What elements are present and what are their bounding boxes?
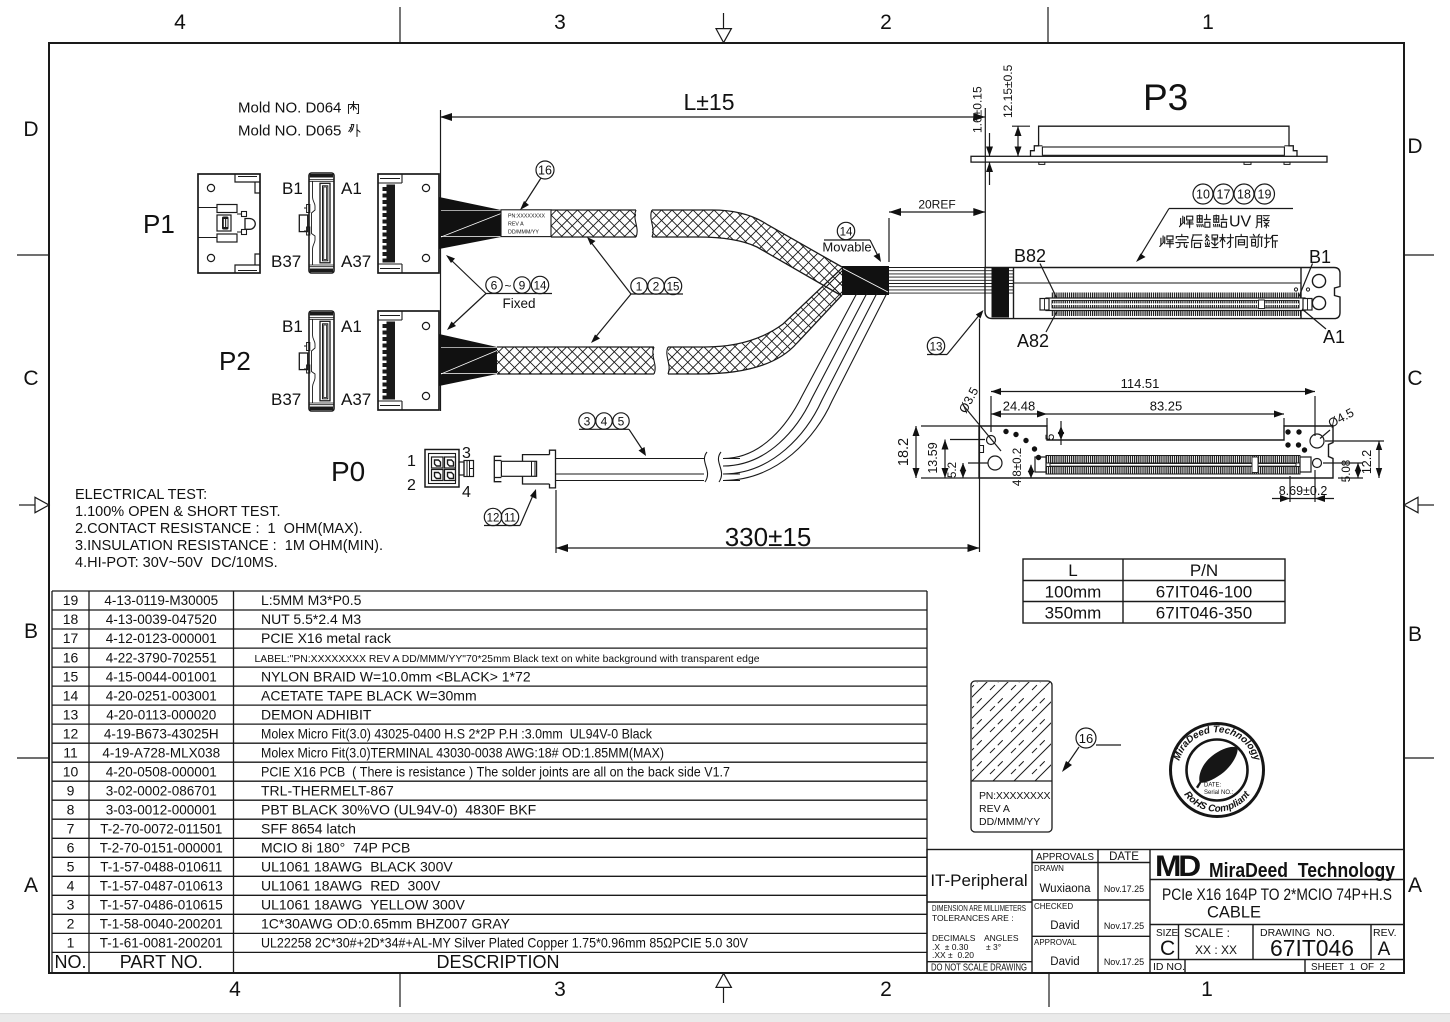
svg-text:Molex Micro Fit(3.0) 43025-040: Molex Micro Fit(3.0) 43025-0400 H.S 2*2P…	[261, 725, 653, 741]
svg-text:P3: P3	[1143, 77, 1188, 118]
svg-text:14: 14	[534, 281, 547, 293]
svg-text:6: 6	[67, 840, 75, 856]
svg-text:MiraDeed Technology: MiraDeed Technology	[1209, 860, 1396, 882]
svg-text:1: 1	[636, 280, 643, 294]
svg-text:14: 14	[63, 687, 79, 703]
dim 83.25	[1047, 399, 1284, 427]
P3 pin leaders	[1040, 264, 1326, 333]
svg-text:B: B	[24, 620, 38, 643]
svg-text:UL1061 18AWG YELLOW 300V: UL1061 18AWG YELLOW 300V	[261, 897, 466, 913]
svg-text:B37: B37	[271, 252, 301, 271]
svg-text:T-2-70-0072-011501: T-2-70-0072-011501	[100, 821, 222, 836]
svg-text:4-20-0113-000020: 4-20-0113-000020	[106, 707, 216, 722]
svg-text:XX : XX: XX : XX	[1195, 943, 1237, 957]
svg-text:18.2: 18.2	[896, 438, 912, 466]
svg-text:19: 19	[63, 592, 79, 608]
lower braid segment A	[497, 347, 655, 374]
svg-text:Movable: Movable	[822, 240, 871, 255]
svg-text:16: 16	[1079, 731, 1093, 746]
svg-text:B82: B82	[1014, 246, 1046, 266]
svg-text:A37: A37	[341, 390, 371, 409]
callout 14 Movable	[822, 222, 881, 262]
svg-text:5: 5	[618, 415, 625, 429]
svg-text:2: 2	[880, 11, 892, 34]
zone tick top-left	[399, 7, 401, 43]
svg-text:DD/MMM/YY: DD/MMM/YY	[979, 816, 1040, 828]
svg-text:4: 4	[601, 415, 608, 429]
dim 12.2	[1325, 441, 1384, 478]
callout 10 17 18 19	[1136, 184, 1293, 262]
BOM row 9	[67, 782, 394, 798]
label 16 detail box	[971, 681, 1052, 832]
svg-text:A82: A82	[1017, 331, 1049, 351]
svg-text:83.25: 83.25	[1150, 399, 1183, 414]
svg-text:5: 5	[1043, 433, 1057, 440]
BOM row 1	[67, 935, 749, 951]
svg-text:13: 13	[63, 706, 79, 722]
svg-text:REV A: REV A	[979, 803, 1010, 815]
svg-text:13.59: 13.59	[926, 442, 940, 473]
svg-text:IT-Peripheral: IT-Peripheral	[930, 871, 1027, 890]
svg-text:PCIe X16 164P TO 2*MCIO 74P+H.: PCIe X16 164P TO 2*MCIO 74P+H.S	[1162, 886, 1392, 904]
svg-text:Serial NO.:: Serial NO.:	[1204, 790, 1234, 796]
callout 12 11	[484, 489, 537, 526]
svg-text:4.8±0.2: 4.8±0.2	[1012, 448, 1024, 486]
svg-text:9: 9	[519, 279, 526, 293]
title block grid	[927, 850, 1404, 974]
svg-text:10: 10	[63, 763, 79, 779]
svg-text:4.HI-POT: 30V~50V DC/10MS.: 4.HI-POT: 30V~50V DC/10MS.	[75, 555, 278, 571]
electrical test notes	[75, 487, 383, 571]
svg-text:1: 1	[1202, 11, 1214, 34]
zone tick bottom-right	[1048, 973, 1050, 1007]
P2 boot (black trapezoid)	[439, 334, 497, 386]
L/PN table	[1023, 559, 1285, 623]
P0 pin numbers	[407, 445, 471, 501]
BOM row 12	[63, 725, 653, 741]
svg-text:DESCRIPTION: DESCRIPTION	[436, 952, 559, 972]
BOM row 7	[67, 820, 356, 836]
svg-text:12: 12	[63, 725, 79, 741]
svg-text:Wuxiaona: Wuxiaona	[1040, 883, 1092, 895]
svg-text:REV A: REV A	[508, 222, 524, 228]
RoHS stamp	[1171, 724, 1264, 817]
svg-text:P0: P0	[331, 456, 365, 487]
svg-text:2: 2	[67, 916, 75, 932]
svg-text:12.2: 12.2	[1360, 450, 1374, 474]
svg-text:11: 11	[63, 744, 78, 760]
svg-text:A1: A1	[341, 179, 362, 198]
svg-text:4-19-A728-MLX038: 4-19-A728-MLX038	[102, 745, 220, 760]
svg-text:T-1-58-0040-200201: T-1-58-0040-200201	[100, 917, 223, 932]
center marker right	[1404, 497, 1434, 512]
svg-text:TRL-THERMELT-867: TRL-THERMELT-867	[261, 782, 394, 798]
svg-text:4: 4	[462, 484, 471, 501]
svg-text:L: L	[1068, 561, 1077, 580]
svg-text:B1: B1	[282, 317, 303, 336]
svg-text:5.2: 5.2	[947, 462, 959, 478]
svg-text:PCIE X16 metal rack: PCIE X16 metal rack	[261, 630, 392, 646]
svg-text:114.51: 114.51	[1121, 376, 1160, 391]
svg-text:CHECKED: CHECKED	[1034, 902, 1073, 911]
svg-text:3-02-0002-086701: 3-02-0002-086701	[106, 783, 217, 798]
svg-text:C: C	[1407, 367, 1422, 390]
svg-text:1.100% OPEN & SHORT TEST.: 1.100% OPEN & SHORT TEST.	[75, 504, 281, 520]
P1 pin labels	[271, 179, 371, 271]
svg-text:100mm: 100mm	[1045, 583, 1102, 602]
zone tick bottom-left	[399, 973, 401, 1007]
bottom gray strip	[0, 1014, 1450, 1022]
BOM row 4	[67, 878, 441, 894]
svg-text:P1: P1	[143, 209, 175, 239]
svg-text:A1: A1	[1323, 327, 1345, 347]
svg-text:A: A	[24, 874, 38, 897]
svg-text:12: 12	[487, 513, 500, 525]
svg-text:UL1061 18AWG RED 300V: UL1061 18AWG RED 300V	[261, 878, 441, 894]
dim 8.69±0.2	[1272, 470, 1334, 502]
callout 1 2 15	[587, 237, 683, 343]
svg-text:ACETATE TAPE BLACK W=30mm: ACETATE TAPE BLACK W=30mm	[261, 687, 477, 703]
svg-text:18: 18	[1237, 188, 1251, 202]
svg-text:4-20-0508-000001: 4-20-0508-000001	[106, 764, 217, 779]
P1 boot (black trapezoid)	[439, 197, 501, 249]
svg-text:T-1-61-0081-200201: T-1-61-0081-200201	[100, 936, 223, 951]
svg-text:PN:XXXXXXXX: PN:XXXXXXXX	[508, 214, 546, 220]
dim Ø3.5	[956, 385, 1001, 451]
svg-text:3: 3	[462, 445, 471, 462]
svg-text:L±15: L±15	[684, 89, 735, 115]
dim 18.2	[896, 426, 979, 478]
callout 13	[927, 310, 984, 355]
svg-text:C: C	[23, 367, 38, 390]
svg-text:14: 14	[840, 227, 853, 239]
svg-text:D: D	[23, 118, 38, 141]
svg-text:SHEET 1 OF 2: SHEET 1 OF 2	[1311, 961, 1385, 973]
wai glyph	[349, 125, 360, 137]
svg-text:4: 4	[67, 878, 75, 894]
svg-text:~: ~	[504, 279, 511, 293]
svg-text:NYLON BRAID W=10.0mm <BLACK> 1: NYLON BRAID W=10.0mm <BLACK> 1*72	[261, 668, 531, 684]
zone tick left-upper	[17, 254, 49, 256]
P2 pin labels	[271, 317, 371, 409]
UV glue note line1 (Chinese glyph strokes)	[1180, 214, 1270, 231]
BOM row 5	[67, 859, 454, 875]
BOM row 2	[67, 916, 511, 932]
P1 MCIO front view	[299, 173, 334, 273]
dim 5 step	[1043, 421, 1064, 445]
BOM row 18	[63, 611, 362, 627]
P3 bottom comb	[1035, 456, 1311, 475]
svg-text:Nov.17.25: Nov.17.25	[1104, 921, 1144, 931]
P0 power wires from bundle	[723, 293, 887, 481]
svg-text:4-15-0044-001001: 4-15-0044-001001	[106, 669, 217, 684]
P3 wire tape (13)	[992, 268, 1010, 318]
BOM row 11	[63, 744, 664, 760]
dim 4.8±0.2	[1012, 448, 1034, 486]
svg-text:4-13-0039-047520: 4-13-0039-047520	[106, 612, 217, 627]
svg-text:2: 2	[880, 978, 892, 1001]
svg-text:6: 6	[491, 279, 498, 293]
dim 114.51	[991, 376, 1315, 436]
svg-text:67IT046-100: 67IT046-100	[1156, 583, 1252, 602]
svg-text:3: 3	[67, 897, 75, 913]
svg-text:D: D	[1407, 135, 1422, 158]
svg-text:A: A	[1408, 874, 1422, 897]
svg-text:Mold NO. D065: Mold NO. D065	[238, 123, 341, 140]
svg-text:B1: B1	[282, 179, 303, 198]
svg-text:DEMON ADHIBIT: DEMON ADHIBIT	[261, 706, 372, 722]
svg-text:15: 15	[667, 282, 680, 294]
svg-text:Fixed: Fixed	[502, 296, 535, 311]
svg-text:1: 1	[67, 935, 75, 951]
BOM row 17	[63, 630, 392, 646]
svg-text:Nov.17.25: Nov.17.25	[1104, 884, 1144, 894]
svg-text:13: 13	[930, 342, 943, 354]
svg-text:16: 16	[538, 164, 552, 178]
callout 3 4 5	[579, 413, 646, 456]
svg-text:18: 18	[63, 611, 79, 627]
svg-text:1: 1	[1201, 978, 1213, 1001]
svg-text:UL1061 18AWG BLACK 300V: UL1061 18AWG BLACK 300V	[261, 859, 453, 875]
lower braid segment B with bend to bundle	[667, 268, 842, 374]
svg-text:4: 4	[174, 11, 186, 34]
svg-text:12.15±0.5: 12.15±0.5	[1001, 64, 1015, 118]
svg-text:9: 9	[67, 782, 75, 798]
MD logo	[1155, 850, 1396, 883]
center marker bottom	[716, 973, 731, 1003]
svg-text:3-03-0012-000001: 3-03-0012-000001	[106, 802, 217, 817]
svg-text:B37: B37	[271, 390, 301, 409]
dim 1.6±0.15	[971, 86, 994, 185]
P3 front view body	[985, 268, 1340, 319]
svg-text:17: 17	[63, 630, 79, 646]
svg-text:David: David	[1050, 920, 1079, 932]
svg-text:L:5MM M3*P0.5: L:5MM M3*P0.5	[261, 592, 362, 608]
svg-text:Nov.17.25: Nov.17.25	[1104, 957, 1144, 967]
svg-text:5: 5	[67, 859, 75, 875]
wire label sticker on P1 cable	[501, 210, 551, 237]
svg-text:UV: UV	[1229, 214, 1252, 231]
svg-text:B: B	[1408, 623, 1422, 646]
svg-text:± 3°: ± 3°	[986, 942, 1001, 952]
svg-text:4-20-0251-003001: 4-20-0251-003001	[106, 688, 217, 703]
UV glue note line2	[1160, 234, 1278, 247]
BOM row 6	[67, 840, 411, 856]
upper braid segment A	[551, 210, 637, 237]
svg-text:3.INSULATION RESISTANCE : 1M: 3.INSULATION RESISTANCE : 1M OHM(MIN).	[75, 538, 383, 554]
dimension 330±15	[556, 490, 980, 553]
center marker left	[19, 497, 49, 512]
svg-text:17: 17	[1217, 188, 1231, 202]
P3 bottom view body	[979, 426, 1333, 478]
svg-text:UL22258 2C*30#+2D*34#+AL-MY Si: UL22258 2C*30#+2D*34#+AL-MY Silver Plate…	[261, 935, 749, 951]
svg-text:67IT046-350: 67IT046-350	[1156, 604, 1252, 623]
svg-text:4-19-B673-43025H: 4-19-B673-43025H	[104, 726, 219, 741]
svg-text:4-12-0123-000001: 4-12-0123-000001	[106, 631, 217, 646]
svg-text:1: 1	[407, 453, 416, 470]
center marker top	[716, 13, 731, 43]
svg-text:24.48: 24.48	[1003, 399, 1036, 414]
svg-text:SFF 8654 latch: SFF 8654 latch	[261, 820, 356, 836]
svg-text:Mold NO. D064: Mold NO. D064	[238, 100, 341, 117]
P2 rear view	[378, 311, 439, 410]
svg-text:SCALE :: SCALE :	[1184, 926, 1230, 940]
zone tick right-lower	[1404, 757, 1434, 759]
P3 pin labels	[1014, 246, 1345, 351]
dim 5.2	[947, 462, 988, 478]
P3 front comb	[1040, 293, 1312, 317]
dimension 20REF	[889, 198, 985, 263]
upper braid segment B with bend to bundle	[651, 210, 842, 296]
svg-text:8: 8	[67, 801, 75, 817]
svg-text:MD: MD	[1155, 850, 1200, 883]
zone tick top-right	[1047, 7, 1049, 43]
nei glyph	[349, 102, 359, 114]
P1 housing plan view	[198, 174, 260, 273]
BOM row 19	[63, 592, 362, 608]
svg-text:1.6±0.15: 1.6±0.15	[971, 86, 985, 133]
dim Ø4.5	[1320, 406, 1356, 439]
svg-text:7: 7	[67, 820, 75, 836]
svg-text:3: 3	[584, 415, 591, 429]
svg-text:CABLE: CABLE	[1207, 904, 1261, 922]
P2 MCIO front view	[299, 311, 334, 411]
svg-text:10: 10	[1196, 188, 1210, 202]
svg-text:1C*30AWG OD:0.65mm BHZ007 GRAY: 1C*30AWG OD:0.65mm BHZ007 GRAY	[261, 916, 511, 932]
svg-text:T-1-57-0486-010615: T-1-57-0486-010615	[100, 898, 223, 913]
svg-text:ID NO.: ID NO.	[1153, 961, 1185, 973]
BOM row 14	[63, 687, 477, 703]
svg-text:11: 11	[504, 513, 516, 525]
svg-text:.XX ± 0.20: .XX ± 0.20	[932, 950, 974, 960]
P0 wire straight section	[556, 452, 741, 482]
BOM row 13	[63, 706, 372, 722]
tolerance notes	[932, 903, 1026, 960]
BOM row 8	[67, 801, 537, 817]
svg-text:TOLERANCES ARE :: TOLERANCES ARE :	[932, 913, 1014, 923]
svg-text:PN:XXXXXXXX: PN:XXXXXXXX	[979, 790, 1051, 802]
approval row	[1034, 938, 1144, 968]
svg-text:20REF: 20REF	[918, 198, 955, 212]
svg-text:DATE: DATE	[1109, 851, 1139, 863]
P1 rear view	[378, 174, 439, 273]
P0 plug side view	[494, 450, 555, 488]
BOM header row	[54, 952, 559, 972]
svg-text:David: David	[1050, 956, 1079, 968]
svg-text:DATE:: DATE:	[1204, 783, 1222, 789]
BOM row 3	[67, 897, 466, 913]
svg-text:APPROVAL: APPROVAL	[1034, 938, 1077, 947]
svg-text:8.69±0.2: 8.69±0.2	[1279, 484, 1328, 498]
dim 24.48	[991, 399, 1047, 427]
svg-text:T-1-57-0487-010613: T-1-57-0487-010613	[100, 879, 223, 894]
svg-text:4: 4	[229, 978, 241, 1001]
svg-text:C: C	[1160, 937, 1175, 960]
svg-text:DD/MMM/YY: DD/MMM/YY	[508, 230, 539, 236]
BOM row 10	[63, 763, 730, 779]
callout 6~9 14 Fixed	[446, 255, 552, 330]
ribbon wires to P3	[889, 268, 1013, 294]
dim 13.59	[926, 440, 985, 479]
BOM table grid	[52, 591, 927, 973]
svg-text:DO NOT SCALE DRAWING: DO NOT SCALE DRAWING	[931, 962, 1027, 974]
checked row	[1034, 902, 1144, 932]
svg-text:P2: P2	[219, 346, 251, 376]
dim 5.08	[1323, 460, 1363, 482]
zone tick right-upper	[1404, 254, 1434, 256]
svg-text:NUT 5.5*2.4 M3: NUT 5.5*2.4 M3	[261, 611, 361, 627]
svg-text:PART NO.: PART NO.	[120, 952, 203, 972]
svg-text:DRAWN: DRAWN	[1034, 864, 1064, 873]
BOM row 15	[63, 668, 531, 684]
svg-text:4-22-3790-702551: 4-22-3790-702551	[106, 650, 217, 665]
svg-text:16: 16	[63, 649, 79, 665]
svg-text:19: 19	[1258, 188, 1272, 202]
svg-text:ELECTRICAL TEST:: ELECTRICAL TEST:	[75, 487, 207, 503]
svg-text:3: 3	[554, 978, 566, 1001]
svg-text:T-1-57-0488-010611: T-1-57-0488-010611	[100, 860, 222, 875]
svg-text:PCIE X16 PCB ( There is resis: PCIE X16 PCB ( There is resistance ) The…	[261, 763, 730, 779]
acetate tape bundle (movable)	[842, 266, 889, 295]
P3 side view	[971, 126, 1327, 164]
svg-text:A37: A37	[341, 252, 371, 271]
svg-text:4-13-0119-M30005: 4-13-0119-M30005	[104, 593, 218, 608]
svg-text:P/N: P/N	[1190, 561, 1218, 580]
svg-text:LABEL:"PN:XXXXXXXX REV A DD/MM: LABEL:"PN:XXXXXXXX REV A DD/MMM/YY"70*25…	[255, 653, 760, 665]
svg-text:APPROVALS: APPROVALS	[1036, 851, 1094, 863]
drawn row	[1034, 864, 1144, 895]
BOM row 16	[63, 649, 760, 665]
svg-text:A: A	[1378, 939, 1391, 960]
svg-text:DIMENSION ARE MILLIMETERS: DIMENSION ARE MILLIMETERS	[932, 903, 1026, 913]
svg-text:MCIO 8i 180° 74P PCB: MCIO 8i 180° 74P PCB	[261, 840, 410, 856]
P3 bottom view solder dots	[1003, 429, 1307, 460]
svg-text:2: 2	[407, 477, 416, 494]
svg-text:A1: A1	[341, 317, 362, 336]
svg-text:2.CONTACT RESISTANCE : 1 OHM: 2.CONTACT RESISTANCE : 1 OHM(MAX).	[75, 521, 363, 537]
svg-text:3: 3	[554, 11, 566, 34]
callout 16 (label detail)	[1062, 728, 1121, 772]
svg-text:PBT BLACK 30%VO (UL94V-0) 483: PBT BLACK 30%VO (UL94V-0) 4830F BKF	[261, 801, 536, 817]
dim 12.15±0.5	[1001, 64, 1030, 156]
svg-text:NO.: NO.	[54, 952, 86, 972]
svg-text:2: 2	[653, 280, 660, 294]
callout 16 (P1 sticker)	[520, 161, 554, 210]
P0 receptacle front view	[425, 450, 474, 488]
svg-text:Molex Micro Fit(3.0)TERMINAL 4: Molex Micro Fit(3.0)TERMINAL 43030-0038 …	[261, 744, 664, 760]
dimension L±15	[440, 89, 985, 552]
svg-text:15: 15	[63, 668, 79, 684]
svg-text:67IT046: 67IT046	[1270, 935, 1354, 961]
svg-text:REV.: REV.	[1373, 927, 1397, 939]
svg-text:350mm: 350mm	[1045, 604, 1102, 623]
zone tick left-lower	[17, 757, 49, 759]
svg-text:T-2-70-0151-000001: T-2-70-0151-000001	[100, 841, 223, 856]
